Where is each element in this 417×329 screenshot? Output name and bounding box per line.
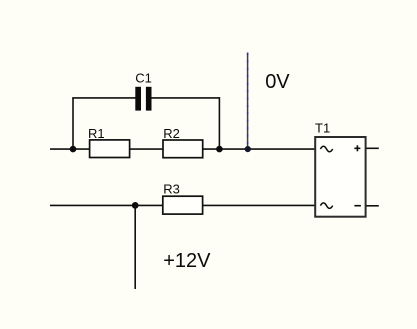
wire T1 output stub bottom	[366, 205, 378, 207]
capacitor C1	[135, 87, 151, 111]
svg-text:C1: C1	[135, 70, 152, 85]
wire 0V net (dashed blue)	[247, 53, 249, 150]
svg-text:+12V: +12V	[163, 250, 211, 272]
wire capacitor loop right vertical	[218, 97, 220, 149]
svg-text:0V: 0V	[265, 71, 290, 93]
svg-text:R2: R2	[163, 126, 180, 141]
resistor R2	[163, 140, 203, 158]
transformer T1	[315, 137, 365, 217]
wire T1 output stub top	[366, 147, 378, 149]
svg-text:R1: R1	[88, 126, 105, 141]
svg-text:R3: R3	[163, 182, 180, 197]
wire bottom rail	[50, 204, 315, 206]
junction dot bottom rail	[132, 202, 139, 209]
wire capacitor loop left vertical	[72, 98, 74, 149]
resistor R1	[90, 140, 130, 158]
wire capacitor loop top-right horizontal	[151, 97, 219, 99]
T1 plus pin	[354, 145, 360, 151]
junction dot 0V	[245, 146, 251, 152]
wire capacitor loop top-left horizontal	[72, 97, 135, 99]
junction dot right of R2	[216, 146, 223, 153]
junction dot left	[70, 146, 77, 153]
resistor R3	[163, 196, 203, 214]
T1 minus pin	[354, 205, 361, 207]
wire top rail	[50, 148, 315, 150]
svg-text:T1: T1	[315, 120, 330, 135]
wire +12V vertical	[134, 205, 136, 289]
T1 AC symbol bottom	[320, 203, 332, 209]
T1 AC symbol top	[320, 146, 332, 152]
